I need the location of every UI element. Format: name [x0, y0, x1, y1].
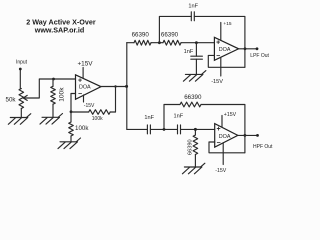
- svg-text:1nF: 1nF: [184, 49, 194, 55]
- node: HPF +input junction: [194, 128, 197, 131]
- wire: U1 +15V supply: [82, 68, 84, 79]
- svg-text:100k: 100k: [92, 116, 103, 122]
- wire: wiper to buffer input: [25, 79, 76, 98]
- svg-text:DOA: DOA: [79, 85, 91, 91]
- wire: U2 +15 supply: [220, 23, 222, 41]
- wire: U1 output row: [101, 86, 127, 88]
- svg-text:1nF: 1nF: [144, 115, 154, 121]
- op-amp U3 DOA (HPF): [215, 124, 238, 148]
- ground (C2): [183, 71, 206, 82]
- resistor R2 100k (to ground): [70, 112, 72, 122]
- ground (R1): [40, 114, 63, 125]
- svg-text:66390: 66390: [184, 94, 202, 101]
- wire: U3 +15V supply: [221, 116, 223, 128]
- svg-text:+15: +15: [223, 21, 231, 27]
- wire: U2 -15V supply: [220, 57, 222, 76]
- svg-text:1nF: 1nF: [188, 4, 198, 10]
- svg-text:-15V: -15V: [215, 168, 226, 174]
- ground (pot): [8, 114, 31, 125]
- node: junction input/R1: [52, 78, 55, 81]
- node: LPF Out terminal: [256, 47, 259, 50]
- resistor R1 100k (input shunt): [52, 79, 54, 86]
- potentiometer RV1 50k: [19, 89, 24, 109]
- node: LPF +input junction: [195, 41, 198, 44]
- svg-text:−: −: [216, 140, 220, 147]
- op-amp U2 DOA (LPF): [214, 37, 238, 60]
- svg-text:66390: 66390: [132, 32, 150, 39]
- svg-text:DOA: DOA: [219, 47, 231, 53]
- capacitor C2 1nF (LPF shunt): [195, 43, 197, 57]
- wire: U1 -15V supply: [83, 95, 85, 102]
- node: HPF Out terminal: [256, 134, 259, 137]
- wire: U3 inverting feedback loop: [209, 142, 245, 153]
- capacitor C4 1nF (HPF series 2): [178, 125, 181, 134]
- node: U1 feedback junction: [70, 110, 73, 113]
- wire: U2 output: [239, 48, 257, 50]
- op-amp U1 DOA: [76, 75, 102, 100]
- resistor R5 66390 (LPF series 1): [134, 40, 151, 45]
- ground (R2): [58, 138, 81, 149]
- svg-text:1nF: 1nF: [173, 114, 183, 120]
- resistor R6 66390 (LPF series 2): [163, 40, 181, 45]
- svg-text:−: −: [78, 91, 82, 98]
- node: U2 output junction: [244, 47, 247, 50]
- svg-text:Input: Input: [16, 60, 28, 66]
- resistor R8 66390 (HPF shunt): [194, 129, 196, 135]
- node: U3 output junction: [244, 134, 247, 137]
- capacitor C1 1nF (LPF feedback): [191, 12, 194, 21]
- svg-text:+15V: +15V: [77, 60, 93, 67]
- svg-text:www.SAP.or.id: www.SAP.or.id: [34, 25, 85, 34]
- wire: U3 -15V supply: [222, 143, 224, 165]
- svg-text:-15V: -15V: [211, 79, 223, 85]
- wiper arrow of RV1: [23, 95, 27, 100]
- node: output/feedback tap: [114, 85, 116, 87]
- node A: LPF R junction: [158, 41, 161, 44]
- ground (R8): [182, 163, 205, 174]
- wire: pot bottom to ground: [20, 109, 22, 118]
- wire: input terminal drop: [19, 70, 21, 89]
- svg-text:+: +: [78, 77, 82, 84]
- wire: U3 output: [238, 134, 258, 136]
- svg-text:-15V: -15V: [84, 103, 95, 109]
- resistor R7 66390 (HPF feedback): [180, 102, 201, 107]
- node B: HPF cap junction: [163, 128, 166, 131]
- svg-text:100k: 100k: [75, 125, 89, 132]
- node: Input terminal dot: [19, 68, 22, 71]
- node: main distribution node: [125, 85, 128, 88]
- svg-text:+15V: +15V: [224, 112, 237, 118]
- resistor R3 100k (U1 feedback): [71, 111, 89, 113]
- wire: node A up to feedback cap: [159, 16, 191, 42]
- wire: cap to output vertical: [194, 16, 245, 67]
- svg-text:DOA: DOA: [219, 134, 231, 140]
- wire: feedback to output vertical: [201, 105, 245, 153]
- svg-text:66390: 66390: [187, 139, 193, 155]
- svg-text:66390: 66390: [161, 32, 179, 39]
- wire: LPF input row: [127, 42, 215, 44]
- svg-text:+: +: [216, 40, 220, 47]
- wire: main vertical bus: [126, 43, 128, 130]
- svg-text:HPF Out: HPF Out: [253, 144, 273, 150]
- wire: HPF input row: [127, 128, 215, 130]
- svg-text:50k: 50k: [6, 96, 17, 103]
- svg-text:+: +: [216, 126, 220, 133]
- svg-text:LPF Out: LPF Out: [250, 53, 269, 59]
- wire: feedback up to output: [115, 87, 117, 113]
- wire: U2 inverting feedback loop: [208, 55, 245, 67]
- svg-text:−: −: [216, 53, 220, 60]
- capacitor C3 1nF (HPF series 1): [147, 125, 150, 134]
- svg-text:100k: 100k: [59, 87, 66, 102]
- wire: U1 inverting input to feedback node: [71, 94, 76, 113]
- wire: node B up to feedback resistor: [164, 105, 180, 130]
